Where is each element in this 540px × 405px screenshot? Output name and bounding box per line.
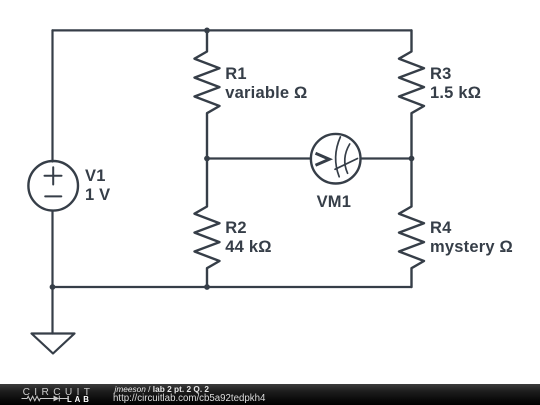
- label R3 value: [430, 65, 481, 103]
- wire VM1 right lead: [361, 157, 412, 159]
- node middle-right junction: [409, 156, 415, 162]
- label R4 value: [430, 219, 513, 257]
- node middle-left junction: [204, 156, 210, 162]
- node bottom of R2 junction: [204, 284, 210, 290]
- resistor R4: [399, 159, 424, 288]
- wire bottom rail: [53, 286, 412, 288]
- node bottom-left junction: [50, 284, 56, 290]
- resistor R3: [399, 30, 424, 158]
- wire left branch lower (V1 bottom lead): [51, 211, 53, 287]
- wire left branch upper (V1 top lead): [51, 30, 53, 161]
- label V1 value: [85, 167, 110, 205]
- footer bar: [0, 384, 540, 405]
- resistor R2: [195, 159, 220, 288]
- label R2 value: [225, 219, 271, 257]
- resistor R1: [195, 30, 220, 158]
- label R1 value: [225, 65, 307, 103]
- wire ground stem: [51, 287, 53, 334]
- ground: [32, 334, 75, 354]
- footer credit line: [115, 384, 210, 394]
- wire top rail: [53, 29, 412, 31]
- voltage source V1: [28, 161, 78, 211]
- footer url line: [113, 393, 265, 404]
- node top of R1: [204, 28, 210, 34]
- label VM1: [317, 193, 352, 212]
- wire VM1 left lead: [207, 157, 311, 159]
- CircuitLab logo: [18, 385, 98, 405]
- voltmeter VM1: [311, 134, 361, 184]
- svg-text:LAB: LAB: [67, 395, 92, 404]
